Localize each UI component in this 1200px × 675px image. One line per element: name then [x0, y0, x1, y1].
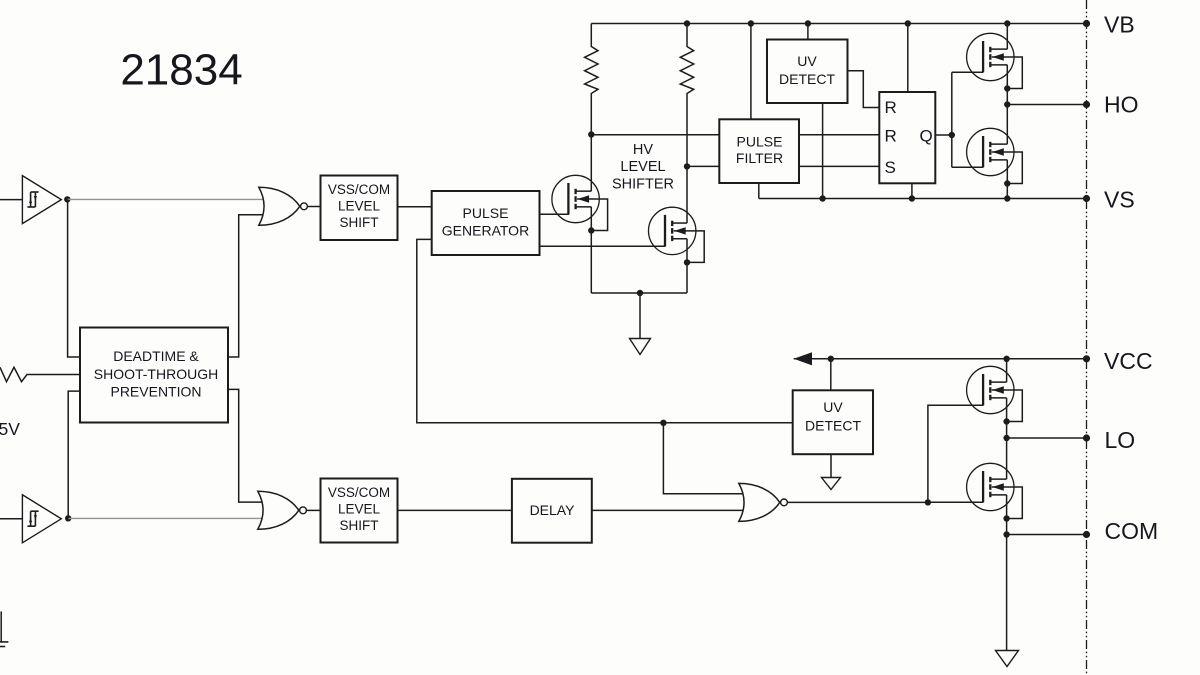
wire U1 output to NOR G1 — [67, 198, 262, 200]
block UV DETECT (low side) — [793, 390, 873, 454]
node R2 bottom — [684, 163, 690, 169]
wire deadtime to NOR G1 input — [228, 215, 263, 357]
wire node B up to deadtime box — [68, 391, 80, 518]
wire HIN input — [0, 199, 22, 201]
wire pulse filter R output — [799, 134, 879, 136]
svg-text:FILTER: FILTER — [736, 150, 783, 166]
node C on long wire — [660, 420, 666, 426]
svg-text:LEVEL: LEVEL — [338, 198, 381, 213]
wire Q6 source down — [1006, 495, 1008, 535]
wire COM to ground — [1006, 535, 1008, 651]
wire Q5 drain — [1006, 359, 1008, 382]
transistor Q1 (level shift left) — [552, 175, 608, 233]
wire R2 to pulse filter — [687, 165, 719, 167]
wire latch bottom to VS — [911, 183, 913, 198]
NOR gate G2 — [258, 491, 307, 529]
block VSS/COM LEVEL SHIFT (high side) — [321, 176, 398, 241]
wire pulse generator gate drive 1 — [540, 213, 570, 215]
svg-text:5V: 5V — [0, 419, 20, 439]
node HO junction — [1004, 101, 1010, 107]
wire G2 output — [306, 509, 321, 511]
wire node A down to deadtime box — [68, 199, 80, 357]
wire Q6 drain — [1006, 438, 1008, 479]
svg-text:LEVEL: LEVEL — [620, 159, 665, 175]
arrow VCC internal supply — [794, 352, 812, 365]
ground (output stage) — [996, 651, 1019, 667]
NOR gate G3 — [739, 483, 788, 521]
wire pulse filter S output — [799, 165, 879, 167]
wire node C to NOR G3 — [663, 423, 743, 494]
svg-text:S: S — [885, 158, 896, 177]
svg-text:VCC: VCC — [1104, 348, 1153, 374]
node VS-UV detect — [819, 195, 825, 201]
svg-text:PULSE: PULSE — [463, 205, 509, 221]
wire Q4 source down — [1006, 160, 1008, 199]
wire UV detect to latch R — [848, 71, 880, 108]
pin COM — [1083, 518, 1158, 544]
node B (U2 output junction) — [65, 515, 71, 521]
node VCC-UV detect — [828, 356, 834, 362]
svg-text:SHIFT: SHIFT — [340, 518, 379, 533]
node G3 output junction — [925, 499, 931, 505]
node VS-latch — [909, 195, 915, 201]
block UV DETECT (high side) — [767, 40, 848, 104]
wire VB to UV detect — [807, 24, 809, 40]
node Q junction — [949, 132, 955, 138]
wire Q6 gate lead — [928, 501, 983, 503]
wire Q1 source down — [590, 207, 592, 293]
schmitt buffer U2 (LIN) — [22, 495, 61, 543]
wire HO — [1007, 104, 1086, 106]
svg-text:VS: VS — [1104, 187, 1135, 213]
pin VS — [1083, 187, 1135, 213]
wire latch Q output — [935, 134, 952, 136]
wire VS rail — [759, 198, 1087, 200]
transistor Q6 (LO pull-down) — [967, 463, 1023, 521]
latch U3 (RRS-Q) — [879, 92, 935, 183]
pin VB — [1083, 12, 1135, 38]
node VB-pulse filter — [748, 20, 754, 26]
svg-text:PREVENTION: PREVENTION — [110, 383, 201, 399]
svg-text:VB: VB — [1104, 12, 1135, 38]
node D common rail — [637, 290, 643, 296]
label 5V — [0, 419, 20, 439]
resistor R1 — [585, 24, 598, 135]
wire pulse generator to UV detect 2 (long) — [417, 239, 793, 422]
node LO junction — [1003, 435, 1009, 441]
IC package boundary (dash-dot line) — [1086, 0, 1088, 675]
wire VB to latch — [907, 24, 909, 93]
wire Q to output gates — [952, 72, 984, 167]
node A (U1 output junction) — [64, 196, 70, 202]
block DELAY — [512, 479, 592, 543]
svg-text:UV: UV — [823, 399, 843, 415]
wire G3 output — [787, 501, 928, 503]
svg-text:DELAY: DELAY — [530, 502, 576, 518]
pin VCC — [1083, 348, 1153, 374]
wire level shift to delay — [398, 509, 512, 511]
NOR gate G1 — [259, 187, 308, 225]
node VB-UV detect — [805, 20, 811, 26]
wire deadtime to NOR G2 input — [228, 389, 262, 502]
wire LO — [1007, 437, 1087, 439]
wire pulse filter to VS rail — [758, 183, 760, 199]
svg-text:HO: HO — [1104, 91, 1139, 117]
transistor Q2 (level shift right) — [649, 207, 705, 265]
wire Q4 drain — [1006, 105, 1008, 145]
wire delay to NOR G3 — [592, 509, 743, 511]
wire Q5 gate lead — [928, 404, 983, 406]
transistor Q4 (HO pull-down) — [967, 128, 1023, 186]
svg-text:Q: Q — [920, 126, 933, 145]
label HV LEVEL SHIFTER — [612, 142, 674, 193]
schmitt buffer U1 (HIN) — [22, 176, 61, 224]
transistor Q5 (LO pull-up) — [967, 366, 1023, 424]
svg-text:COM: COM — [1105, 518, 1159, 544]
wire VCC rail — [794, 358, 1087, 360]
svg-text:VSS/COM: VSS/COM — [328, 485, 390, 500]
block DEADTIME & SHOOT-THROUGH PREVENTION — [80, 328, 228, 423]
node VS-Q4 — [1004, 195, 1010, 201]
svg-text:SHIFT: SHIFT — [340, 215, 379, 230]
svg-text:R: R — [885, 127, 897, 146]
wire U2 output to NOR G2 — [68, 517, 262, 519]
block VSS/COM LEVEL SHIFT (low side) — [321, 479, 398, 543]
wire G3 to output gates — [928, 405, 983, 502]
wire to ground mid — [639, 293, 641, 339]
node COM junction — [1003, 531, 1009, 537]
wire Q1 drain — [590, 135, 592, 192]
wire COM — [1007, 534, 1087, 536]
pin HO — [1083, 91, 1139, 117]
wire pulse generator gate drive 2 — [540, 245, 666, 247]
node R1 bottom — [588, 131, 594, 137]
node VB-Q3 drain — [1004, 20, 1010, 26]
block PULSE FILTER — [719, 119, 799, 183]
svg-text:LEVEL: LEVEL — [338, 501, 381, 516]
svg-text:HV: HV — [633, 142, 653, 158]
svg-text:SHIFTER: SHIFTER — [612, 177, 674, 193]
node VCC-Q5 — [1003, 356, 1009, 362]
wire Q2 drain — [686, 166, 688, 223]
wire VCC to UV detect 2 — [830, 359, 832, 391]
svg-text:R: R — [885, 98, 897, 117]
wire Q2 source down — [686, 239, 688, 293]
transistor Q3 (HO pull-up) — [967, 33, 1023, 91]
svg-text:UV: UV — [797, 53, 817, 69]
wire G1 output — [307, 206, 321, 208]
wire Q3 source down — [1006, 65, 1008, 105]
resistor RDT — [0, 367, 80, 381]
wire Q5 source down — [1006, 398, 1008, 438]
wire level shift to pulse generator — [398, 206, 432, 208]
svg-text:LO: LO — [1105, 427, 1136, 453]
ground VSS (clipped) — [0, 611, 8, 646]
block PULSE GENERATOR — [432, 191, 540, 255]
wire Q3 drain — [1006, 24, 1008, 50]
ground (level shifter) — [630, 339, 651, 355]
wire VB rail — [591, 23, 1086, 25]
node VB-latch — [905, 20, 911, 26]
svg-text:SHOOT-THROUGH: SHOOT-THROUGH — [94, 366, 218, 382]
wire LIN input — [0, 518, 22, 520]
wire level shifter common rail — [591, 292, 687, 294]
svg-text:DETECT: DETECT — [779, 71, 835, 87]
wire UV detect 2 to ground — [830, 454, 832, 477]
wire R1 to pulse filter — [591, 134, 719, 136]
pin LO — [1083, 427, 1135, 453]
title 21834 — [120, 46, 242, 95]
svg-text:DETECT: DETECT — [805, 418, 861, 434]
node R2 top — [684, 20, 690, 26]
resistor R2 — [680, 24, 693, 167]
ground (UV detect 2) — [822, 478, 841, 490]
wire VB to pulse filter — [750, 24, 752, 120]
svg-text:GENERATOR: GENERATOR — [442, 222, 529, 238]
svg-text:DEADTIME &: DEADTIME & — [113, 348, 199, 364]
svg-text:21834: 21834 — [120, 46, 242, 95]
svg-text:VSS/COM: VSS/COM — [328, 182, 390, 197]
svg-text:PULSE: PULSE — [737, 133, 783, 149]
wire UV detect to VS rail — [822, 103, 824, 199]
